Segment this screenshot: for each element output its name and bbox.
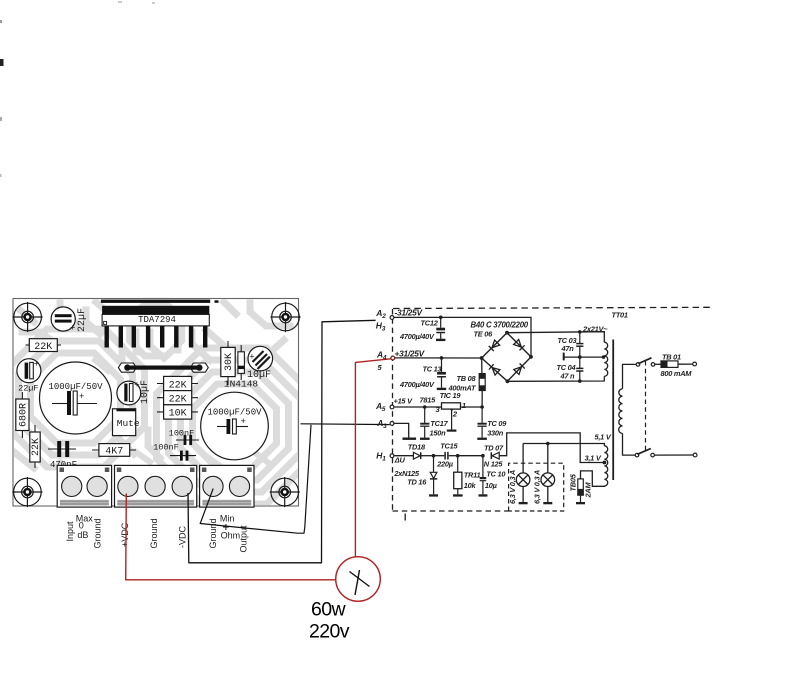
svg-text:22K: 22K xyxy=(169,395,187,406)
terminal block 1 xyxy=(57,465,111,507)
wire A3 terminal to board edge xyxy=(301,423,390,426)
node lamp2 tap xyxy=(546,442,550,446)
diode TD18 xyxy=(413,452,433,459)
svg-text:+: + xyxy=(134,381,139,391)
lamp La1 6,3V 0,3A xyxy=(516,444,530,503)
terminal A4 xyxy=(391,356,395,360)
terminal A5 xyxy=(390,405,394,409)
svg-text:+: + xyxy=(249,353,254,363)
svg-text:330n: 330n xyxy=(487,428,504,437)
diode bridge top-right xyxy=(514,339,525,350)
svg-text:TD 07: TD 07 xyxy=(484,443,504,452)
zener TD16 2xN125 xyxy=(430,456,437,495)
ground lamp La2 xyxy=(543,502,552,504)
capacitor C6 1000uF/50V right xyxy=(201,392,269,460)
svg-text:4K7: 4K7 xyxy=(105,447,123,458)
svg-text:Ground: Ground xyxy=(208,518,218,548)
capacitor TC12 4700u/40V xyxy=(436,317,445,338)
mounting hole bottom-left xyxy=(12,477,42,507)
pad pair with thick trace xyxy=(118,363,208,372)
svg-text:+VDC: +VDC xyxy=(120,522,130,547)
tick between Min and Ohm xyxy=(223,524,229,530)
diode TD07 xyxy=(491,452,499,459)
ground TC10 xyxy=(479,494,488,496)
dashed border lamps box xyxy=(509,463,564,511)
ground TB05 xyxy=(576,502,585,504)
node 3,1V tap xyxy=(603,461,607,465)
ground TC09 xyxy=(477,438,487,440)
terminal A3 xyxy=(390,422,394,426)
node TC04 bottom xyxy=(578,379,582,383)
terminal A2 xyxy=(390,316,394,320)
capacitor C1 22uF top xyxy=(51,307,88,334)
node TD16 top xyxy=(432,454,436,458)
svg-text:Ground: Ground xyxy=(149,518,159,548)
regulator 7815 TIC19 box xyxy=(442,403,483,430)
switch lower pole xyxy=(635,449,697,457)
svg-text:10µF: 10µF xyxy=(140,380,151,404)
svg-text:47n: 47n xyxy=(561,344,575,353)
wire A4 rail +31/25V xyxy=(395,357,482,359)
transformer core TT01 xyxy=(612,340,614,481)
capacitor TC09 330n xyxy=(478,407,487,438)
capacitor TC04 47n xyxy=(576,357,583,381)
terminal block 2 xyxy=(115,465,197,507)
svg-text:220v: 220v xyxy=(309,621,350,643)
svg-text:TE 06: TE 06 xyxy=(474,330,494,339)
svg-text:TB 08: TB 08 xyxy=(457,374,477,383)
node regulator out / TC09 xyxy=(480,405,484,409)
node on A2 rail xyxy=(439,316,443,320)
wire red +VDC terminal to lamp xyxy=(126,494,336,580)
capacitor C7 100nF upper xyxy=(169,429,199,446)
svg-text:22µF: 22µF xyxy=(77,308,88,332)
switch upper pole xyxy=(636,358,655,366)
svg-text:60w: 60w xyxy=(311,599,346,621)
svg-text:B40 C 3700/2200: B40 C 3700/2200 xyxy=(471,321,529,330)
switch linkage dashed xyxy=(645,361,647,452)
node bridge left xyxy=(480,356,484,360)
svg-text:TB 01: TB 01 xyxy=(662,353,681,362)
capacitor C5 10uF top-right xyxy=(247,346,273,381)
svg-text:22K: 22K xyxy=(169,380,187,391)
svg-text:-VDC: -VDC xyxy=(178,526,188,548)
svg-text:TD 16: TD 16 xyxy=(407,478,427,487)
svg-text:22K: 22K xyxy=(34,342,52,353)
resistor R7 4K7 xyxy=(92,444,136,458)
diode bridge bottom-left xyxy=(489,364,500,375)
svg-text:Input: Input xyxy=(65,521,75,542)
svg-text:5: 5 xyxy=(378,363,383,372)
node center tap junction xyxy=(578,355,582,359)
node TC03 top xyxy=(578,330,582,334)
diode bridge bottom-right xyxy=(514,364,525,375)
resistor R6 10K stack xyxy=(157,405,198,420)
svg-text:TB05: TB05 xyxy=(569,473,578,491)
svg-text:+15 V: +15 V xyxy=(394,396,414,405)
node bridge top xyxy=(505,331,509,335)
capacitor TC15 220u series xyxy=(434,452,458,460)
svg-text:Mute: Mute xyxy=(117,418,140,429)
IC U1 TDA7294 body xyxy=(102,314,209,326)
terminal labels below board xyxy=(65,513,249,552)
capacitor C3 1000uF/50V left xyxy=(40,362,112,434)
svg-text:TT01: TT01 xyxy=(612,311,628,320)
jumper Mute xyxy=(113,409,140,436)
svg-text:5,1 V: 5,1 V xyxy=(595,432,612,441)
ground lamp La1 xyxy=(519,502,528,504)
wire bridge top to winding xyxy=(507,332,604,343)
svg-text:7815: 7815 xyxy=(420,396,437,405)
winding primary 220V xyxy=(619,389,623,434)
svg-text:2: 2 xyxy=(452,410,458,419)
svg-text:H1: H1 xyxy=(376,451,386,463)
svg-text:2AM: 2AM xyxy=(584,482,593,499)
fuse TB05 2AM xyxy=(578,479,584,502)
capacitor TC13 4700u/40V xyxy=(437,358,446,388)
wire A2 rail -31/25V xyxy=(394,317,531,357)
fuse TB01 800mAM xyxy=(655,361,697,368)
wire red lamp to A4 terminal xyxy=(355,359,390,557)
ground TC17 xyxy=(420,438,430,440)
wire -VDC terminal to A2 rail (down, right, up, left) xyxy=(188,320,376,563)
schematic labels xyxy=(375,308,692,505)
dashed border main box xyxy=(393,307,711,520)
svg-text:680R: 680R xyxy=(19,403,30,427)
svg-text:TC12: TC12 xyxy=(421,319,439,328)
diode bridge top-left xyxy=(489,340,500,351)
scan artifacts left edge xyxy=(0,1,155,177)
svg-text:Ground: Ground xyxy=(93,518,103,548)
IC U1 TDA7294 heatsink bars xyxy=(101,300,219,315)
IC U1 pins 1-8 xyxy=(105,326,208,348)
svg-text:TR11: TR11 xyxy=(464,470,481,479)
wire center tap with chassis bar xyxy=(564,353,604,361)
PCB board outline xyxy=(13,299,299,507)
ground TD16 xyxy=(429,494,438,496)
svg-text:dB: dB xyxy=(77,530,88,540)
wire H1 rail xyxy=(394,455,413,457)
resistor R3 30K xyxy=(221,341,235,385)
svg-text:TC17: TC17 xyxy=(430,419,448,428)
node winding tap xyxy=(602,355,606,359)
ground TC13 xyxy=(437,388,446,390)
svg-text:6,3 V 0,3 A: 6,3 V 0,3 A xyxy=(533,470,542,504)
svg-text:A3: A3 xyxy=(376,418,387,430)
svg-text:10µ: 10µ xyxy=(485,481,498,490)
resistor R4 22K stack xyxy=(157,376,198,391)
svg-text:N 125: N 125 xyxy=(484,460,504,469)
fuse TB08 400mAT xyxy=(479,358,485,407)
svg-text:22K: 22K xyxy=(31,438,42,456)
svg-text:2xN125: 2xN125 xyxy=(393,469,420,478)
svg-text:A5: A5 xyxy=(375,401,386,413)
svg-text:H3: H3 xyxy=(376,321,386,333)
terminal H1 xyxy=(390,454,394,458)
svg-text:1000µF/50V: 1000µF/50V xyxy=(207,408,262,418)
svg-text:+: + xyxy=(241,417,246,427)
wire TD07 to lamps rail xyxy=(499,433,603,463)
wire TR11 to TC10 node xyxy=(458,455,483,457)
svg-text:Output: Output xyxy=(239,525,249,553)
lamp La2 6,3V 0,3A xyxy=(541,444,555,503)
svg-text:TC 10: TC 10 xyxy=(486,469,506,478)
capacitor TC03 47n xyxy=(576,332,583,357)
mounting hole top-left xyxy=(13,302,43,332)
ground A3 xyxy=(403,438,417,440)
mounting hole top-right xyxy=(270,302,300,332)
svg-text:6,3 V 0,3 A: 6,3 V 0,3 A xyxy=(508,470,517,504)
ground regulator pin2 xyxy=(447,430,457,432)
svg-text:+: + xyxy=(79,392,84,402)
ground TR11 xyxy=(453,494,463,496)
svg-text:Ohm: Ohm xyxy=(221,531,241,541)
node TC10 top xyxy=(481,454,485,458)
svg-text:10k: 10k xyxy=(464,481,477,490)
wire bridge bottom to winding xyxy=(507,376,604,381)
svg-text:47 n: 47 n xyxy=(560,372,576,381)
svg-text:150n: 150n xyxy=(430,428,447,437)
capacitor C8 100nF lower xyxy=(153,443,196,461)
wire A3 to ground xyxy=(394,423,409,437)
svg-text:22µF: 22µF xyxy=(18,384,38,394)
node on A4 rail xyxy=(440,356,444,360)
svg-text:+31/25V: +31/25V xyxy=(395,348,426,358)
node TR11 top xyxy=(456,454,460,458)
node TC17 top xyxy=(423,405,427,409)
svg-text:800 mAM: 800 mAM xyxy=(661,369,693,378)
resistor R1 22K top-left xyxy=(26,339,62,353)
svg-text:TDA7294: TDA7294 xyxy=(138,315,176,325)
capacitor C9 470nF xyxy=(48,441,77,470)
node bridge right xyxy=(529,355,533,359)
capacitor C2 22uF left xyxy=(17,359,41,394)
terminal block 3 xyxy=(200,465,254,507)
resistor R8 22K vertical xyxy=(30,425,42,468)
svg-text:TD18: TD18 xyxy=(408,443,426,452)
svg-text:ΔU: ΔU xyxy=(394,456,406,465)
svg-text:4700µ/40V: 4700µ/40V xyxy=(399,332,435,341)
capacitor C4 10uF middle xyxy=(117,380,151,405)
ground TC12 xyxy=(436,339,445,341)
mounting hole bottom-right xyxy=(270,477,300,507)
svg-text:TC 13: TC 13 xyxy=(423,365,443,374)
svg-text:10µF: 10µF xyxy=(247,370,271,381)
svg-text:1: 1 xyxy=(462,401,466,410)
svg-text:A2: A2 xyxy=(375,308,386,320)
winding 5,1V / 3,1V xyxy=(604,446,607,486)
svg-text:+: + xyxy=(70,324,75,334)
svg-text:3,1 V: 3,1 V xyxy=(585,453,602,462)
svg-text:Min: Min xyxy=(220,513,235,523)
wire 5,1V rail xyxy=(523,444,604,446)
lamp 60w 220v xyxy=(336,557,381,602)
svg-text:220µ: 220µ xyxy=(436,460,454,469)
svg-text:+: + xyxy=(34,360,39,370)
svg-text:TC15: TC15 xyxy=(440,442,458,451)
svg-text:0: 0 xyxy=(79,520,84,530)
node bridge bottom xyxy=(506,379,510,383)
wire A5 +15V rail xyxy=(394,406,441,408)
capacitor TC17 150n xyxy=(420,407,429,438)
svg-text:TIC 19: TIC 19 xyxy=(440,391,462,400)
svg-text:-31/25V: -31/25V xyxy=(395,308,424,318)
wire primary to switches xyxy=(623,364,637,455)
winding 2x21V secondary xyxy=(604,342,607,376)
svg-text:100nF: 100nF xyxy=(153,443,179,453)
resistor TR11 10k xyxy=(454,456,462,495)
wire winding bottom to fuse TB05 xyxy=(581,471,605,486)
resistor R5 22K stack xyxy=(157,391,198,406)
svg-text:10K: 10K xyxy=(169,409,187,420)
diode D1 1N4148 xyxy=(224,345,259,389)
svg-text:4700µ/40V: 4700µ/40V xyxy=(399,380,435,389)
capacitor TC10 10u xyxy=(480,456,487,495)
resistor R2 680R xyxy=(16,392,30,438)
svg-text:2x21V~: 2x21V~ xyxy=(582,324,608,333)
svg-text:TC 09: TC 09 xyxy=(487,419,507,428)
svg-text:30K: 30K xyxy=(224,353,235,371)
wire Ground(out) terminal to A3 rail xyxy=(200,425,311,533)
bridge rectifier TE06 diamond xyxy=(482,333,531,382)
